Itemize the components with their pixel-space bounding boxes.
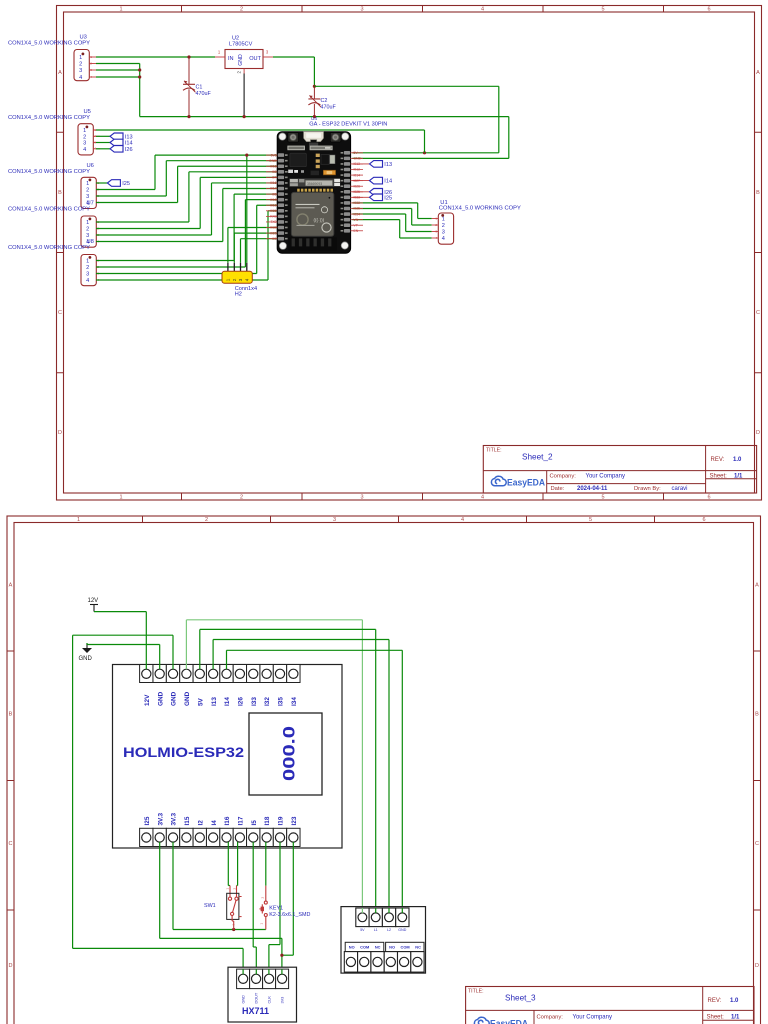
svg-text:1: 1 [218,50,221,55]
svg-text:I035: I035 [354,207,361,211]
svg-text:3: 3 [86,194,89,200]
module U4 GA-ESP32 DEVKIT V1 30PIN [277,116,388,253]
svg-text:6: 6 [702,517,705,523]
svg-text:I26: I26 [237,697,244,706]
wire GND loop to ESP32 GND [508,117,510,159]
connector U3 CON1X4_5.0 [8,35,96,82]
wire U3 pin3 [96,69,140,71]
svg-text:5V: 5V [360,928,365,932]
svg-text:I35: I35 [278,697,285,706]
svg-text:D: D [756,430,760,436]
svg-text:12V: 12V [144,694,151,706]
svg-text:GND: GND [242,995,246,1004]
sheet 1 border frame [57,6,762,501]
svg-text:I13: I13 [384,162,392,168]
svg-text:I027: I027 [354,179,361,183]
wire U3 pin4 [96,76,140,78]
wire I13 to relay T3 [212,640,214,665]
wire I23 to 3V net [292,847,294,956]
net label I25 [107,180,130,187]
svg-text:NC: NC [415,945,421,950]
svg-text:GND: GND [184,691,191,706]
capacitor C1 470uF [183,57,211,117]
svg-text:4: 4 [481,7,484,13]
svg-text:C: C [9,841,13,847]
svg-text:4: 4 [244,278,249,281]
connector U5 CON1X4_5.0 [8,109,100,155]
svg-text:3: 3 [266,50,269,55]
wire regulator GND black [243,74,245,117]
svg-text:1: 1 [119,7,122,13]
wire staircase 1 [96,189,155,191]
wire 12V to pin 12V [94,611,146,613]
svg-text:1: 1 [226,278,231,281]
svg-text:TX0: TX0 [270,220,276,224]
display 0.000 [249,713,322,795]
svg-text:A: A [755,583,759,589]
wire tips into terminals [146,665,402,975]
svg-text:I25: I25 [384,195,392,201]
svg-text:5: 5 [589,517,592,523]
junction I23/3V [280,954,283,957]
svg-text:2: 2 [79,62,82,68]
wire stub I13 [352,163,369,165]
wire 3V.3 pin3 to switch common [172,847,174,930]
junction regulator GND [243,115,246,118]
svg-text:GND: GND [354,157,362,161]
svg-text:I026: I026 [354,184,361,188]
svg-text:2: 2 [232,888,236,890]
wire staircase 6 [96,234,212,236]
sheet 2 zone labels [9,517,760,969]
svg-text:I018: I018 [270,198,277,202]
svg-text:Company:: Company: [537,1015,564,1021]
svg-text:12V: 12V [88,598,99,604]
wire H2 pin3 to ESP32 [240,239,242,263]
svg-text:GND: GND [269,159,277,163]
svg-text:Your Company: Your Company [586,474,625,480]
wire U5 pin2 stub [96,135,110,137]
svg-text:I02: I02 [272,170,277,174]
svg-text:CON1X4_5.0 WORKING COPY: CON1X4_5.0 WORKING COPY [439,206,521,212]
wire GND4 to relay T1 (selected, light) [185,620,187,665]
svg-text:3: 3 [86,272,89,278]
svg-text:GND: GND [171,691,178,706]
svg-text:GND: GND [238,54,244,66]
svg-text:5: 5 [601,495,604,501]
svg-text:I23: I23 [291,816,298,825]
junction [138,68,141,71]
svg-text:REV:: REV: [711,457,725,463]
wire H2 pin2 to ESP32 [233,233,235,263]
svg-text:I32: I32 [264,697,271,706]
wire U5 pin3 stub [96,142,110,144]
svg-text:1/1: 1/1 [731,1014,740,1020]
svg-text:A: A [9,583,13,589]
svg-text:2: 2 [86,227,89,233]
svg-text:Sheet:: Sheet: [707,1014,725,1020]
svg-text:1: 1 [225,888,229,890]
svg-text:KEY1: KEY1 [269,906,283,912]
svg-text:I13: I13 [211,697,218,706]
svg-text:Sheet_2: Sheet_2 [522,452,553,461]
svg-text:HOLMIO-ESP32: HOLMIO-ESP32 [123,745,244,760]
svg-text:2: 2 [232,278,237,281]
svg-text:I015: I015 [270,164,277,168]
svg-text:B: B [756,190,760,196]
wire GND vertical x=139.7 [139,64,141,117]
svg-text:I25: I25 [122,181,130,187]
ESP32 right pin labels [351,151,363,233]
wire staircase 8 [96,260,234,262]
svg-text:I014: I014 [354,173,361,177]
svg-text:5V: 5V [197,697,204,706]
svg-text:Sheet_3: Sheet_3 [505,993,536,1002]
wire ESP32 to U1 pin3 [352,213,405,215]
svg-text:Your Company: Your Company [573,1015,612,1021]
svg-text:I2: I2 [197,820,204,826]
connector U8 CON1X4_5.0 [8,239,103,286]
svg-text:I26: I26 [125,147,133,153]
svg-text:I14: I14 [125,141,133,147]
svg-text:2: 2 [442,223,445,229]
svg-text:Date:: Date: [551,486,565,492]
net label I14 [110,139,133,146]
svg-text:I09: I09 [272,237,277,241]
svg-text:C: C [755,841,759,847]
relay module [341,907,426,974]
svg-text:HX711: HX711 [242,1006,269,1016]
connector U6 CON1X4_5.0 [8,163,103,209]
junction C2 top [313,85,316,88]
svg-text:VN: VN [354,218,359,222]
connector U1 CON1X4_5.0 [432,200,521,244]
net label I26 [370,189,393,196]
svg-text:4: 4 [79,75,82,81]
svg-text:L7805CV: L7805CV [229,42,253,48]
svg-text:I16: I16 [224,816,231,825]
svg-text:I25: I25 [144,816,151,825]
svg-text:C: C [756,310,760,316]
wire stub I26 [352,191,369,193]
svg-text:1: 1 [86,220,89,226]
junction C2 bottom [313,115,316,118]
svg-text:I019: I019 [270,203,277,207]
svg-text:CON1X4_5.0 WORKING COPY: CON1X4_5.0 WORKING COPY [8,41,90,47]
connector U7 CON1X4_5.0 [8,201,103,248]
svg-text:Drawn By:: Drawn By: [634,486,661,492]
net label I13 [110,133,133,140]
svg-text:1.0: 1.0 [730,998,739,1004]
wire ESP32 to U1 pin4 [352,219,399,221]
svg-text:I021: I021 [270,209,277,213]
svg-text:CON1X4_5.0 WORKING COPY: CON1X4_5.0 WORKING COPY [8,245,90,251]
svg-text:GND: GND [398,928,406,932]
junction H2 pin4 [245,154,248,157]
svg-text:3: 3 [333,517,336,523]
net label I13 [370,161,393,168]
svg-text:C1: C1 [196,85,203,91]
wire U3 pin1 to regulator IN (net +12V) [96,56,215,58]
svg-text:1: 1 [83,128,86,134]
svg-text:D: D [9,963,13,969]
svg-text:D: D [755,963,759,969]
module HX711 [228,967,297,1022]
svg-text:I013: I013 [354,162,361,166]
svg-text:C2: C2 [321,98,328,104]
module HOLMIO-ESP32 [113,665,343,849]
svg-text:000.0: 000.0 [280,726,299,781]
junction C1 bottom [187,115,190,118]
svg-text:NO: NO [389,945,395,950]
svg-text:K2-3.6x6.1_SMD: K2-3.6x6.1_SMD [269,912,310,918]
svg-text:GA - ESP32 DEVKIT V1 30PIN: GA - ESP32 DEVKIT V1 30PIN [309,122,387,128]
svg-text:1: 1 [442,217,445,223]
wire GND symbol to pin GND2 [86,643,88,645]
junction C1 top [187,55,190,58]
svg-text:I14: I14 [384,179,392,185]
svg-text:1: 1 [86,259,89,265]
svg-text:3: 3 [360,7,363,13]
svg-text:B: B [755,712,759,718]
ESP32 left pin labels [266,153,277,241]
net label I26 [110,146,133,153]
svg-text:3V3: 3V3 [281,997,285,1004]
svg-text:6: 6 [707,495,710,501]
svg-text:3: 3 [360,495,363,501]
ground symbol GND [79,643,93,662]
svg-text:NO: NO [349,945,355,950]
svg-text:3V.3: 3V.3 [171,812,178,825]
wire +5V loop to ESP32 VIN [314,85,498,87]
svg-text:I4: I4 [211,820,218,826]
title block sheet 2 [466,987,754,1024]
wire staircase 10 [96,273,257,275]
svg-text:TITLE:: TITLE: [486,447,502,453]
svg-text:I04: I04 [272,176,277,180]
svg-text:2: 2 [205,517,208,523]
wire stub I14 [352,180,369,182]
svg-text:B: B [58,190,62,196]
svg-text:D: D [58,430,62,436]
sheet 1 zone labels [58,7,760,501]
svg-text:CON1X4_5.0 WORKING COPY: CON1X4_5.0 WORKING COPY [8,169,90,175]
wire ESP32 to U1 pin1 [352,202,417,204]
svg-text:TITLE:: TITLE: [468,988,484,994]
svg-text:I025: I025 [354,190,361,194]
wire staircase 2 [96,195,166,197]
svg-text:I19: I19 [278,816,285,825]
svg-text:I012: I012 [354,168,361,172]
svg-text:I14: I14 [224,697,231,706]
junction +5V / U5 feed [423,151,426,154]
wire ESP32 to U1 pin2 [352,208,411,210]
svg-text:470uF: 470uF [196,91,212,97]
svg-text:caravi: caravi [672,486,688,492]
net label I25 [370,194,393,201]
svg-text:2: 2 [240,495,243,501]
EasyEDA logo sheet 2 [474,1017,528,1024]
svg-text:DOUT: DOUT [255,992,259,1003]
svg-text:GND: GND [79,656,93,662]
wire I19 to HX711 CLK [279,847,281,945]
wire staircase 3 [96,202,178,204]
svg-text:1: 1 [119,495,122,501]
title block sheet 1 [483,446,756,494]
svg-text:L1: L1 [374,928,378,932]
svg-text:1.0: 1.0 [733,457,742,463]
svg-text:NC: NC [375,945,381,950]
svg-text:3: 3 [79,68,82,74]
svg-text:I034: I034 [354,212,361,216]
wire GND left loop to HX711 GND [172,635,174,664]
svg-text:I34: I34 [291,697,298,706]
svg-text:B: B [9,712,13,718]
svg-text:4: 4 [442,236,445,242]
wire U5 pin1 long horizontal [96,129,425,131]
svg-text:3: 3 [83,141,86,147]
svg-text:(((·))): (((·))) [314,218,325,223]
svg-text:I032: I032 [354,201,361,205]
svg-text:EN: EN [354,229,359,233]
svg-text:I016: I016 [270,181,277,185]
wire H2 pin1 to ESP32 [227,228,229,263]
svg-text:1: 1 [86,181,89,187]
svg-text:U4: U4 [311,116,317,121]
svg-text:I33: I33 [251,697,258,706]
svg-text:1: 1 [259,923,263,925]
svg-text:4: 4 [83,147,86,153]
wire staircase 5 [96,228,200,230]
wire I17 to SW1 [237,847,239,886]
svg-text:I023: I023 [270,231,277,235]
sheet 2 border frame [7,516,761,1024]
svg-text:H2: H2 [235,292,242,298]
svg-text:2: 2 [260,897,264,899]
svg-text:OUT: OUT [249,56,261,62]
svg-text:4: 4 [461,517,464,523]
svg-text:A: A [58,70,62,76]
junction SW1 bottom [232,928,235,931]
switch SW1 [204,886,242,930]
net label I14 [370,177,393,184]
relay contact labels NO COM NC [345,942,384,951]
EasyEDA logo [491,476,545,487]
wire 5V to relay T2 [199,629,201,664]
wire 3V.3 pin2 to HX711 3V [159,847,161,939]
svg-text:COM: COM [401,945,410,950]
svg-text:3: 3 [442,230,445,236]
svg-text:I022: I022 [270,226,277,230]
svg-text:SW1: SW1 [204,903,216,909]
svg-text:3V3: 3V3 [271,153,277,157]
svg-text:2: 2 [86,188,89,194]
svg-text:CLK: CLK [268,996,272,1004]
svg-text:2: 2 [83,134,86,140]
wire I16 to SW1 [227,847,229,886]
svg-text:EasyEDA: EasyEDA [507,477,545,487]
svg-text:470uF: 470uF [321,104,337,110]
wire staircase 11 [96,279,268,281]
svg-text:2: 2 [86,265,89,271]
svg-text:I18: I18 [264,816,271,825]
wire regulator OUT to C2 (net +5V) [273,56,314,58]
svg-text:EasyEDA: EasyEDA [490,1018,528,1024]
button KEY1 K2-3.6x6.1_SMD [259,886,310,930]
power flag 12V [88,598,99,612]
wire H2 pin4 long vertical [246,155,248,263]
svg-text:COM: COM [360,945,369,950]
svg-text:CON1X4_5.0 WORKING COPY: CON1X4_5.0 WORKING COPY [8,207,90,213]
svg-text:2: 2 [237,71,242,74]
svg-text:I033: I033 [354,196,361,200]
wire staircase 4 [96,221,189,223]
svg-text:I13: I13 [125,134,133,140]
svg-text:I5: I5 [251,820,258,826]
wire I14 to relay T4 [226,650,228,664]
wire stub I25 [352,196,369,198]
svg-text:RX0: RX0 [270,215,277,219]
svg-text:GND: GND [157,691,164,706]
connector H2 Conn1x4 [222,263,257,298]
svg-text:IN: IN [228,56,234,62]
svg-text:35669093: 35669093 [307,182,322,186]
svg-text:I15: I15 [184,816,191,825]
svg-text:I17: I17 [237,816,244,825]
wire I18 to KEY1 [265,847,267,886]
svg-text:A: A [756,70,760,76]
capacitor C2 470uF [308,86,336,116]
wire U5 pin4 stub [96,148,110,150]
svg-text:4: 4 [481,495,484,501]
wire staircase 7 [96,241,223,243]
svg-text:2024-04-11: 2024-04-11 [577,486,608,492]
wire U6 pin1 stub [96,182,107,184]
wire I5 to HX711 DOUT [252,847,254,948]
svg-text:I017: I017 [270,187,277,191]
wire staircase 9 [96,266,245,268]
wire U3 pin2 to GND vertical [96,63,140,65]
svg-text:I05: I05 [272,192,277,196]
regulator U2 L7805CV [215,36,273,75]
svg-text:1: 1 [77,517,80,523]
svg-text:4: 4 [86,278,89,284]
svg-text:1/1: 1/1 [734,473,743,479]
svg-text:6: 6 [707,7,710,13]
svg-text:3: 3 [238,278,243,281]
svg-text:Sheet:: Sheet: [710,473,728,479]
svg-text:Company:: Company: [550,474,577,480]
svg-text:1: 1 [79,55,82,61]
svg-text:C: C [58,310,62,316]
svg-text:L2: L2 [387,928,391,932]
svg-text:3V.3: 3V.3 [157,812,164,825]
svg-text:REV:: REV: [708,998,722,1004]
wire GND rail [140,116,509,118]
svg-text:2: 2 [240,7,243,13]
svg-text:5: 5 [601,7,604,13]
svg-text:CON1X4_5.0 WORKING COPY: CON1X4_5.0 WORKING COPY [8,115,90,121]
